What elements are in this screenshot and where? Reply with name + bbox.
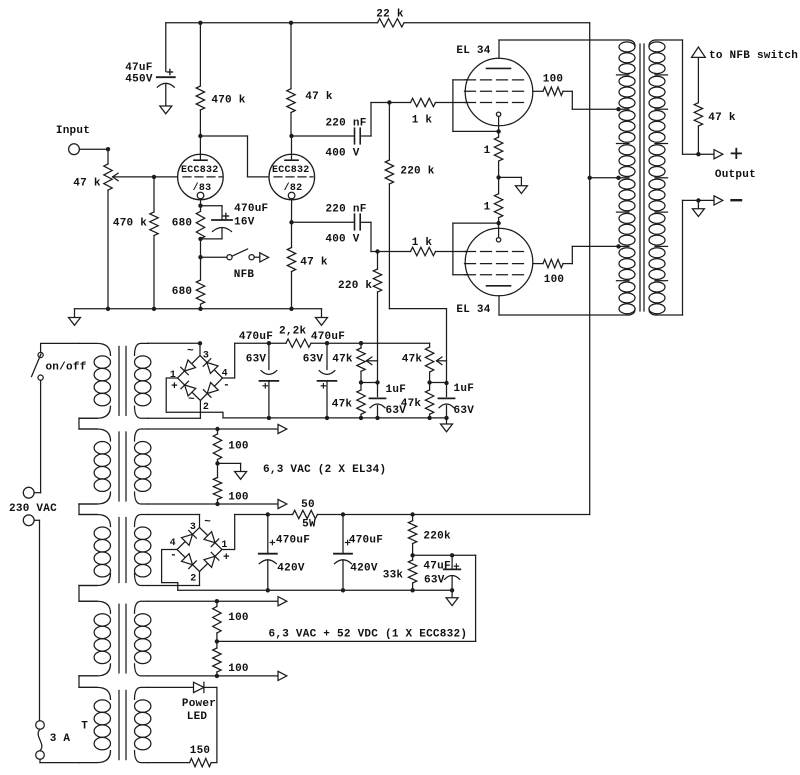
wire sec5 top to LED (149, 686, 194, 688)
svg-text:~: ~ (204, 517, 211, 529)
wire center tap (590, 177, 619, 179)
label 100 (544, 274, 565, 286)
OPT primary entry curve (628, 40, 635, 46)
svg-text:ECC832: ECC832 (272, 165, 310, 176)
wire input node down (107, 149, 109, 164)
svg-text:100: 100 (228, 663, 249, 675)
label 47 k (305, 91, 333, 103)
resistor 100 humdinger upper (213, 429, 221, 463)
wire input to pot (79, 148, 108, 150)
label 47uF (125, 62, 152, 74)
resistor 680 V1 cathode (196, 206, 204, 239)
wire primary link (79, 586, 97, 602)
label + (171, 381, 178, 393)
switch NFB contact b (249, 255, 254, 260)
connector heater EL34 a (278, 424, 287, 433)
wire bridge2 node2 stem (199, 572, 201, 586)
wire V2 cathode to cap (292, 221, 355, 223)
label 3 (190, 522, 196, 533)
wire sec4 bottom heater (149, 675, 279, 677)
wire V1 anode stem (199, 136, 201, 160)
wire lower anode to OPT (499, 314, 628, 316)
resistor 1 k lower grid stopper (378, 247, 468, 255)
svg-text:47k: 47k (332, 354, 353, 366)
svg-text:220 nF: 220 nF (325, 118, 366, 130)
svg-text:+: + (171, 381, 178, 393)
junction heater bottom (215, 502, 219, 506)
resistor 1 k upper grid stopper (389, 98, 467, 106)
svg-text:2: 2 (190, 573, 196, 584)
junction bus cap2 (325, 416, 329, 420)
resistor 100 humdinger lower (213, 463, 221, 504)
svg-text:LED: LED (187, 711, 208, 723)
label 100 (228, 441, 249, 453)
svg-text:4: 4 (170, 538, 176, 549)
junction preamp V1 load (198, 21, 202, 25)
junction bus 47k left (359, 416, 363, 420)
label ~ (187, 346, 194, 358)
wire fuse to primary (40, 759, 79, 762)
OPT secondary taps (655, 75, 668, 281)
OPT primary taps (617, 75, 630, 281)
resistor 47k bias left lower (357, 383, 365, 418)
capacitor 470uF 16V bypass (201, 206, 233, 239)
junction 680/cap bottom (198, 237, 202, 241)
svg-text:5W: 5W (302, 519, 316, 531)
switch NFB contact a (227, 255, 232, 260)
wire NFB tap (201, 256, 227, 258)
wire cap to ground (165, 84, 167, 106)
junction OPT center tap (616, 176, 620, 180)
label ~ (204, 517, 211, 529)
svg-text:~: ~ (188, 394, 195, 406)
wire EL34 upper anode (498, 40, 500, 58)
switch on/off contact a (38, 352, 43, 357)
label on/off (45, 362, 86, 374)
wire cathode mid to ground (499, 177, 522, 185)
junction bus cap1 (267, 416, 271, 420)
junction bridge1 node 3 (198, 341, 202, 345)
junction HT cap1 (266, 512, 270, 516)
label 100 (228, 612, 249, 624)
label 470uF (311, 331, 345, 343)
svg-text:47uF: 47uF (125, 62, 152, 74)
wire sec2 top heater (149, 428, 279, 430)
svg-text:470 k: 470 k (113, 217, 147, 229)
wire cathode chain (200, 239, 202, 280)
svg-text:EL 34: EL 34 (456, 45, 490, 57)
capacitor 470uF 420V a (259, 515, 277, 591)
svg-text:3: 3 (190, 522, 196, 533)
svg-text:Power: Power (182, 698, 216, 710)
svg-text:EL 34: EL 34 (456, 304, 490, 316)
svg-text:470uF: 470uF (239, 331, 273, 343)
transformer T1 core LED section (119, 690, 126, 759)
junction screen tap lower (616, 244, 620, 248)
EL34 lower cathode pin (496, 238, 500, 242)
resistor 47 k V2 plate load (287, 23, 295, 136)
junction input node (106, 147, 110, 151)
transformer T1 primary HT section (79, 515, 111, 586)
label 5W (302, 519, 316, 531)
label + (732, 149, 741, 158)
switch NFB lever (232, 249, 248, 256)
label 63V (246, 354, 267, 366)
svg-text:470uF: 470uF (311, 331, 345, 343)
label 100 (543, 74, 564, 86)
svg-text:2: 2 (203, 402, 209, 413)
resistor 33k (408, 555, 416, 590)
diode bridge2 D2-4 (182, 554, 197, 569)
wire V2 cathode (291, 199, 293, 223)
bridge2 diamond (177, 528, 222, 572)
svg-text:63V: 63V (454, 405, 475, 417)
label EL 34 (456, 304, 490, 316)
resistor 2,2k bias filter (286, 339, 311, 347)
junction output plus (696, 152, 700, 156)
label LED (187, 711, 208, 723)
svg-text:3 A: 3 A (50, 733, 71, 745)
diode bridge1 D1-3 (181, 360, 196, 375)
EL34 lower g2 dashes (465, 263, 524, 265)
svg-text:680: 680 (172, 286, 193, 298)
svg-text:1 k: 1 k (412, 115, 433, 127)
label 220 nF (325, 204, 366, 216)
EL34 upper cathode pin (496, 112, 500, 116)
ground (446, 598, 458, 606)
label 47 k (300, 257, 328, 269)
capacitor 47uF 63V (444, 555, 460, 590)
label 16V (234, 217, 255, 229)
label 420V (350, 563, 378, 575)
resistor 470 k V1 plate load (196, 23, 204, 136)
connector heater ECC832 a (278, 597, 287, 606)
label 1 k (412, 115, 433, 127)
svg-text:T: T (81, 721, 88, 733)
wire DC elevation link (217, 640, 476, 642)
triode U1 ECC832/83 envelope (178, 154, 224, 200)
label 450V (125, 73, 153, 85)
potentiometer 47k bias right (425, 343, 433, 382)
wire zero bus ground (451, 590, 453, 598)
transformer T1 secondary mains section (135, 343, 151, 418)
label 47k (401, 398, 422, 410)
potentiometer 47 k volume (104, 164, 112, 190)
junction wiper-470k (152, 175, 156, 179)
junction bias pot left (359, 341, 363, 345)
resistor 1 upper cathode (494, 131, 502, 177)
svg-text:1 k: 1 k (412, 237, 433, 249)
wire B+ rail (589, 23, 591, 515)
junction bus end (444, 416, 448, 420)
resistor 47 k V2 cathode (287, 222, 295, 308)
capacitor 470uF 63V bias 1 (260, 343, 279, 418)
junction bus 47k (289, 307, 293, 311)
transformer T1 secondary LED section (135, 687, 151, 762)
label 47 k (73, 178, 101, 190)
ground right (316, 309, 328, 326)
wire g2 lower (533, 263, 543, 265)
label 150 (190, 745, 211, 757)
svg-text:400 V: 400 V (325, 234, 359, 246)
label 2,2k (279, 325, 307, 337)
wire upper bias feed to pot (389, 309, 446, 383)
junction zero 47uF (450, 588, 454, 592)
svg-text:470uF: 470uF (234, 203, 268, 215)
wire humdinger ground (218, 463, 241, 471)
resistor 22 k (378, 19, 405, 27)
label 63V (424, 575, 445, 587)
svg-text:420V: 420V (277, 563, 305, 575)
svg-text:47k: 47k (332, 399, 353, 411)
label NFB (234, 269, 255, 281)
svg-text:3: 3 (203, 351, 209, 362)
label 470 k (113, 217, 147, 229)
wiper arrow bias left (366, 357, 377, 365)
label 50 (301, 499, 315, 511)
resistor 680 lower (196, 280, 204, 309)
junction bus pot (106, 307, 110, 311)
EL34 upper g3 dashes (465, 79, 524, 81)
svg-text:2,2k: 2,2k (279, 325, 307, 337)
wire bridge1 node2 stem (199, 401, 201, 419)
svg-text:100: 100 (228, 441, 249, 453)
svg-text:150: 150 (190, 745, 211, 757)
label 1 k (412, 237, 433, 249)
svg-text:22 k: 22 k (376, 9, 404, 21)
label 63V (303, 354, 324, 366)
svg-text:1: 1 (484, 202, 491, 214)
wire bridge1 node3 stem (199, 343, 201, 355)
label 680 (172, 286, 193, 298)
diode bridge1 D2-4 (203, 383, 218, 398)
svg-text:100: 100 (228, 612, 249, 624)
diode power LED (194, 682, 204, 692)
junction humdinger mid (215, 461, 219, 465)
svg-text:1uF: 1uF (386, 384, 407, 396)
wire winding to bridge1 AC bottom (148, 417, 200, 419)
label 3 (203, 351, 209, 362)
V1 grid dashes (183, 176, 222, 178)
junction V1 cathode node (198, 204, 202, 208)
junction V1 anode (198, 134, 202, 138)
wire bias rail (235, 342, 430, 344)
transformer T1 secondary 6.3V EL34 heater section (135, 429, 151, 504)
junction pot left bottom (359, 380, 363, 384)
svg-text:450V: 450V (125, 73, 153, 85)
wire bridge1 minus out (223, 343, 235, 378)
svg-text:470uF: 470uF (349, 535, 383, 547)
wire OPT secondary top (656, 40, 714, 154)
label - (170, 550, 177, 562)
wire ground bus (75, 308, 322, 310)
junction 1uF right (444, 381, 448, 385)
svg-text:100: 100 (544, 274, 565, 286)
junction zero cap2 (341, 588, 345, 592)
label 100 (228, 492, 249, 504)
label ECC832 (272, 165, 310, 176)
junction cathode mid (496, 175, 500, 179)
EL34 lower g1 dashes (465, 251, 524, 253)
label to NFB switch (709, 50, 798, 62)
svg-text:470uF: 470uF (276, 535, 310, 547)
wire g2 upper (533, 90, 543, 92)
switch on/off contact b (38, 375, 43, 380)
label 1uF (454, 383, 475, 395)
wire g3 strap lower (453, 223, 499, 275)
junction bias cap1 (267, 341, 271, 345)
wire bias plus bus (223, 417, 447, 419)
transformer T1 secondary ECC832 heater section (135, 601, 151, 676)
svg-text:47 k: 47 k (73, 178, 101, 190)
pentode EL34 upper envelope (465, 58, 533, 126)
label Output (715, 169, 756, 181)
junction humdinger2 mid (215, 639, 219, 643)
label EL 34 (456, 45, 490, 57)
svg-text:1: 1 (170, 370, 176, 381)
junction screen tap upper (616, 107, 620, 111)
wire primary link (79, 418, 97, 429)
svg-text:63V: 63V (246, 354, 267, 366)
wire OPT secondary bottom (656, 200, 714, 315)
ground left (69, 309, 81, 326)
V2 grid dashes (274, 176, 313, 178)
transformer T1 core ECC832 heater section (119, 604, 126, 673)
wire bridge1 plus out (166, 378, 223, 418)
svg-text:50: 50 (301, 499, 315, 511)
pentode EL34 lower envelope (465, 228, 533, 296)
terminal 230 VAC b (23, 515, 34, 526)
junction upper cathode (496, 129, 500, 133)
label 4 (170, 538, 176, 549)
wire V1 cathode (200, 199, 202, 206)
label 47 k (708, 112, 736, 124)
svg-text:-: - (223, 380, 230, 392)
label 63V (454, 405, 475, 417)
resistor 150 (149, 758, 217, 766)
label 6,3 VAC (2 X EL34) (263, 464, 386, 476)
wire primary link (79, 504, 97, 515)
potentiometer 47k bias left (357, 343, 365, 382)
capacitor 470uF 63V bias 2 (318, 343, 337, 418)
resistor 100 upper screen (543, 87, 619, 109)
wire DC elevation (475, 555, 477, 641)
label 3 A (50, 733, 71, 745)
svg-text:33k: 33k (383, 570, 404, 582)
resistor 100 humdinger2 lower (213, 641, 221, 676)
wire bridge2 node3 stem (199, 515, 201, 528)
transformer T1 primary ECC832 heater section (79, 601, 111, 676)
wire pot right node (430, 382, 447, 384)
diode bridge2 D3-4 (182, 530, 197, 545)
label 6,3 VAC + 52 VDC (1 X ECC832) (269, 628, 468, 640)
label 100 (228, 663, 249, 675)
label 47k (402, 354, 423, 366)
transformer T1 secondary HT section (135, 515, 151, 586)
label + (223, 552, 230, 564)
svg-text:220k: 220k (423, 531, 451, 543)
label 470uF (234, 203, 268, 215)
wire sec2 bottom heater (149, 503, 279, 505)
capacitor 1uF 63V right (439, 383, 455, 418)
connector output plus (714, 150, 723, 159)
wire to NFB arrow (254, 256, 260, 258)
OPT secondary entry curve (649, 40, 656, 46)
connector heater ECC832 b (278, 671, 287, 680)
svg-text:220 k: 220 k (400, 166, 434, 178)
capacitor 220 nF lower (355, 214, 361, 230)
svg-text:400 V: 400 V (325, 148, 359, 160)
transformer T1 core 6.3V EL34 heater section (119, 432, 126, 501)
svg-text:Output: Output (715, 169, 756, 181)
svg-text:100: 100 (543, 74, 564, 86)
wire mains top to switch (41, 343, 79, 352)
junction upper grid node (387, 100, 391, 104)
wire pot bottom to ground bus (107, 190, 109, 309)
junction HT 220k (410, 512, 414, 516)
label ~ (188, 394, 195, 406)
diode bridge1 D3-4 (203, 359, 218, 374)
wire EL34 lower anode (498, 296, 500, 315)
capacitor 470uF 420V b (334, 515, 352, 591)
junction 47uF node (450, 553, 454, 557)
junction bias cap2 (325, 341, 329, 345)
svg-text:47uF: 47uF (423, 561, 450, 573)
EL34 lower plate bar (487, 285, 511, 287)
junction bus 680 (198, 307, 202, 311)
EL34 upper g2 dashes (465, 90, 524, 92)
wire HT zero bus (178, 589, 452, 591)
label 1 (484, 202, 491, 214)
ground (235, 472, 247, 480)
svg-text:1: 1 (484, 145, 491, 157)
wire primary link (79, 676, 97, 688)
wire EL34 upper cathode (498, 117, 500, 132)
capacitor 47uF 450V (157, 69, 175, 87)
OPT secondary exit curve (649, 309, 656, 315)
svg-text:220 k: 220 k (338, 280, 372, 292)
label 1 (170, 370, 176, 381)
label 47k (332, 354, 353, 366)
label 4 (222, 369, 228, 380)
resistor 220k dropper (408, 515, 416, 556)
wire output minus ground (697, 200, 699, 208)
wire V1 anode to V2 grid (200, 136, 268, 177)
label Power (182, 698, 216, 710)
label ECC832 (181, 165, 219, 176)
label 1 (221, 540, 227, 551)
svg-text:6,3 VAC + 52 VDC (1 X ECC832): 6,3 VAC + 52 VDC (1 X ECC832) (269, 628, 468, 640)
diode bridge2 D2-1 (204, 552, 219, 567)
svg-text:NFB: NFB (234, 269, 255, 281)
junction heater top (215, 427, 219, 431)
connector output minus (714, 196, 723, 205)
transformer T1 primary mains section (79, 343, 111, 418)
wire sec3 top to bridge2 (149, 514, 200, 516)
resistor 220 k upper bias feed (385, 103, 393, 309)
wire upper anode to OPT (499, 39, 628, 41)
junction heater2 top (215, 599, 219, 603)
svg-text:16V: 16V (234, 217, 255, 229)
wire to 47uF reservoir (165, 23, 167, 72)
svg-text:on/off: on/off (45, 362, 86, 374)
terminal input jack (69, 144, 80, 155)
V2 plate bar (285, 159, 298, 161)
wire B+ preamp feed top rail (166, 22, 590, 24)
transformer T1 core mains section (119, 346, 126, 415)
label 220k (423, 531, 451, 543)
svg-text:47k: 47k (402, 354, 423, 366)
